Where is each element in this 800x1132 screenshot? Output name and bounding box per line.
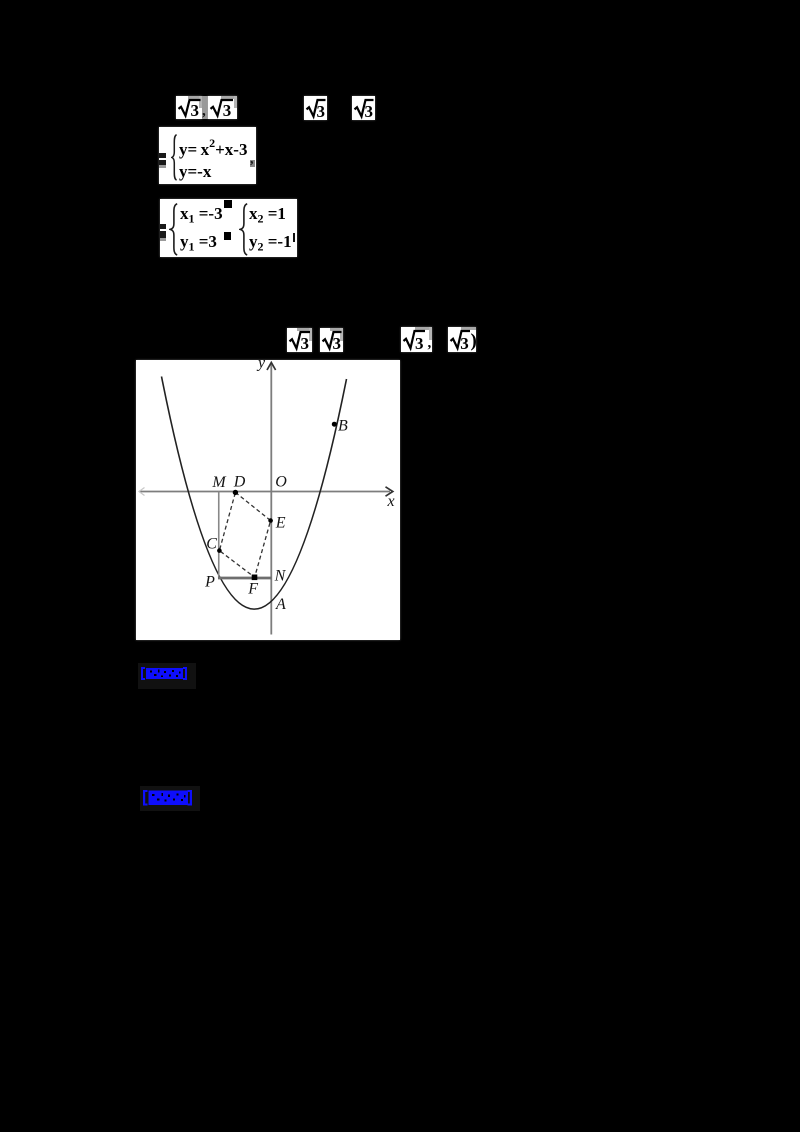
clipped glyph at left edge [159,153,166,165]
halo behind blue label 1 [138,663,196,689]
sqrt box F [320,328,343,352]
svg-text:E: E [275,515,286,532]
svg-text:B: B [338,418,348,435]
svg-text:P: P [204,574,215,591]
svg-text:3: 3 [333,334,342,352]
MP line [218,492,220,579]
svg-text:D: D [233,474,246,491]
dashed quad [219,492,270,577]
svg-text:M: M [211,474,227,491]
labels [204,355,394,614]
svg-text:3: 3 [365,102,374,120]
svg-text:O: O [275,474,287,491]
system 2 box [160,199,297,257]
svg-text:3: 3 [460,334,469,352]
svg-text:3: 3 [317,102,326,120]
svg-text:3: 3 [415,334,424,352]
comma between A and B [202,96,208,119]
comma after system 1 [250,160,255,167]
svg-text:A: A [275,596,286,613]
sqrt box C [304,96,327,120]
graph [136,360,400,640]
brace 2 [239,203,249,256]
x axis [139,491,390,493]
svg-text:3: 3 [191,101,200,119]
svg-text:F: F [247,581,258,598]
blue label 2 [143,789,192,811]
sqrt box A [176,96,202,119]
sqrt box D [352,96,375,120]
sqrt box G with comma [401,327,432,352]
svg-text:,: , [428,335,432,351]
parabola [162,377,347,610]
system 1 box [159,127,256,184]
svg-text:x: x [386,493,394,510]
svg-text:C: C [206,536,217,553]
clipped glyph at left edge [160,224,166,238]
blue label 1 [141,666,187,686]
sqrt box B [208,96,237,119]
svg-text:y: y [256,360,266,372]
sqrt box H with paren [448,327,476,352]
y axis [270,363,272,635]
svg-text:3: 3 [223,101,232,119]
svg-text:): ) [471,331,477,352]
dots [233,490,238,495]
svg-text:N: N [274,568,287,585]
sqrt box E [287,328,312,352]
svg-text:3: 3 [301,334,310,352]
brace [171,134,178,181]
PN line [218,577,271,580]
halo behind blue label 2 [140,786,200,811]
brace 1 [169,203,179,256]
